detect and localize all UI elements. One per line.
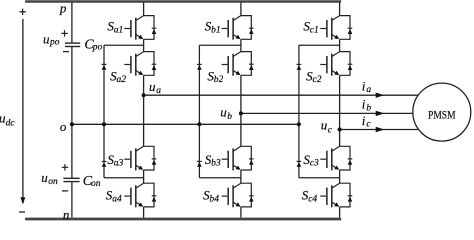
svg-text:a2: a2: [117, 75, 127, 85]
svg-text:on: on: [91, 179, 101, 189]
svg-text:c3: c3: [310, 159, 319, 169]
svg-text:u: u: [43, 31, 50, 46]
svg-text:on: on: [48, 177, 58, 187]
svg-text:PMSM: PMSM: [428, 108, 456, 122]
svg-text:c4: c4: [308, 194, 317, 204]
svg-text:b2: b2: [214, 75, 224, 85]
svg-text:c1: c1: [310, 25, 319, 35]
svg-text:a: a: [156, 86, 161, 96]
svg-text:n: n: [63, 207, 70, 222]
svg-text:i: i: [362, 78, 366, 93]
svg-text:b3: b3: [211, 159, 221, 169]
svg-text:po: po: [92, 43, 103, 53]
svg-text:i: i: [362, 113, 366, 128]
svg-text:dc: dc: [6, 119, 16, 129]
svg-text:p: p: [59, 1, 67, 16]
svg-text:i: i: [362, 97, 366, 112]
svg-text:b1: b1: [211, 25, 221, 35]
svg-text:b: b: [227, 112, 232, 122]
svg-text:po: po: [49, 38, 60, 48]
svg-text:u: u: [220, 104, 227, 119]
svg-text:u: u: [41, 170, 48, 185]
svg-text:a: a: [366, 85, 371, 95]
svg-text:u: u: [321, 118, 328, 133]
svg-text:b: b: [366, 103, 371, 113]
svg-text:o: o: [60, 119, 67, 134]
svg-text:c2: c2: [313, 75, 322, 85]
svg-text:u: u: [149, 79, 156, 94]
svg-text:b4: b4: [210, 194, 220, 204]
svg-text:a4: a4: [112, 194, 122, 204]
svg-text:c: c: [366, 120, 371, 130]
svg-text:c: c: [328, 125, 333, 135]
svg-text:a1: a1: [114, 25, 124, 35]
svg-text:a3: a3: [114, 159, 124, 169]
